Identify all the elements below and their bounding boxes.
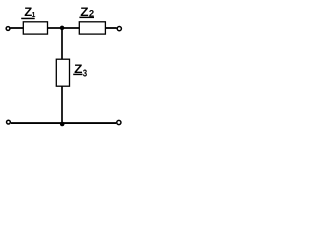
svg-text:3: 3 [83,68,88,80]
